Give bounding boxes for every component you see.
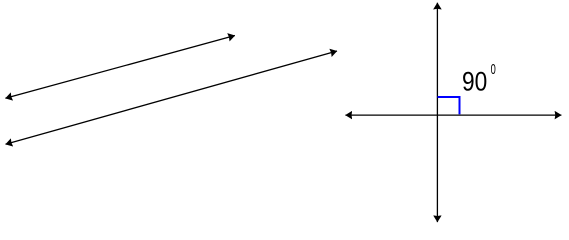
- right-angle marker (blue square): [438, 97, 460, 114]
- parallel line L1 (upper): [5, 36, 235, 99]
- svg-text:90: 90: [462, 67, 487, 97]
- vertical line (perpendicular figure): [436, 3, 438, 222]
- horizontal line (perpendicular figure): [345, 114, 561, 116]
- parallel line L2 (lower): [6, 51, 338, 144]
- svg-text:0: 0: [491, 61, 496, 78]
